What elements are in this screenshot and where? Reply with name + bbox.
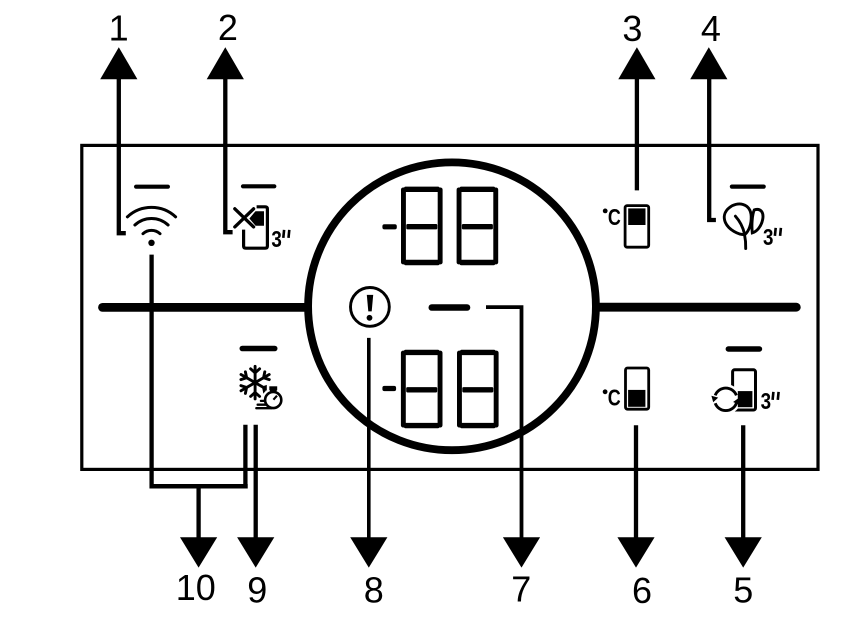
arrow 8 xyxy=(350,537,387,567)
display circle xyxy=(308,162,596,450)
degree C (fridge) xyxy=(603,386,621,412)
3 seconds label (leaf) xyxy=(763,224,781,251)
fridge display digit 1 xyxy=(401,350,443,429)
svg-text:8: 8 xyxy=(364,570,384,611)
svg-text:2: 2 xyxy=(218,7,238,48)
wifi icon xyxy=(127,207,175,246)
main horizontal line right xyxy=(598,303,796,312)
arrow 7 xyxy=(503,537,540,567)
fast freeze snowflake icon xyxy=(241,366,269,399)
freezer display digit 1 xyxy=(401,187,443,266)
main horizontal line left xyxy=(103,303,307,312)
svg-text:3: 3 xyxy=(761,388,772,415)
arrow 2 xyxy=(207,47,244,79)
svg-text:10: 10 xyxy=(176,567,216,608)
leader line 2 xyxy=(225,79,232,232)
leader line 4 xyxy=(709,79,716,220)
leader line 3 xyxy=(635,79,639,190)
leader line 1 xyxy=(119,79,126,233)
svg-text:3: 3 xyxy=(622,8,642,49)
svg-text:C: C xyxy=(608,386,621,412)
convertible compartment icon xyxy=(711,370,756,415)
arrow 3 xyxy=(618,47,655,79)
degree C (freezer) xyxy=(603,205,621,231)
leader line 5 xyxy=(741,425,745,538)
fridge display digit 2 xyxy=(457,350,499,429)
svg-text:3: 3 xyxy=(763,224,774,251)
indicator dash above fast-freeze icon xyxy=(242,346,274,352)
leader line 8 xyxy=(367,338,371,538)
svg-text:9: 9 xyxy=(247,570,267,611)
fridge display minus xyxy=(382,386,396,391)
3 seconds label (door alarm) xyxy=(271,226,289,253)
indicator dash above leaf icon xyxy=(732,185,764,189)
freezer temperature icon xyxy=(625,206,649,248)
arrow 1 xyxy=(100,47,137,79)
arrow 9 xyxy=(237,537,274,567)
fridge temperature icon xyxy=(626,368,649,409)
arrow 4 xyxy=(690,47,727,79)
svg-text:6: 6 xyxy=(632,570,652,611)
arrow 10 xyxy=(180,537,217,567)
leader line 9 xyxy=(254,425,258,538)
leaf icon xyxy=(724,204,763,249)
indicator dash above door-alarm icon xyxy=(243,184,274,188)
center indicator dash xyxy=(432,304,467,311)
leader line 7 xyxy=(486,307,522,538)
svg-text:5: 5 xyxy=(733,570,753,611)
bracket joining wifi and fast-freeze lines xyxy=(150,484,248,489)
indicator dash above wifi xyxy=(136,185,168,189)
indicator dash above convert icon xyxy=(728,346,759,351)
svg-text:4: 4 xyxy=(701,8,721,49)
svg-text:1: 1 xyxy=(109,8,129,49)
alarm (exclamation) icon xyxy=(351,288,390,327)
leader line 6 xyxy=(634,425,638,538)
leader line 10 stem xyxy=(196,486,200,538)
svg-text:3: 3 xyxy=(271,226,282,253)
freezer display digit 2 xyxy=(457,187,499,266)
timer (stopwatch) of fast freeze icon xyxy=(256,384,285,412)
arrow 6 xyxy=(617,537,654,567)
control panel outline xyxy=(82,145,818,469)
svg-text:7: 7 xyxy=(511,569,531,610)
fast-freeze leader line left (to 10) xyxy=(243,425,247,489)
3 seconds label (convert) xyxy=(761,388,779,415)
wifi leader line down xyxy=(149,255,153,489)
arrow 5 xyxy=(725,537,762,567)
door alarm off icon xyxy=(235,207,268,248)
svg-text:C: C xyxy=(608,205,621,231)
freezer display minus xyxy=(382,224,396,229)
